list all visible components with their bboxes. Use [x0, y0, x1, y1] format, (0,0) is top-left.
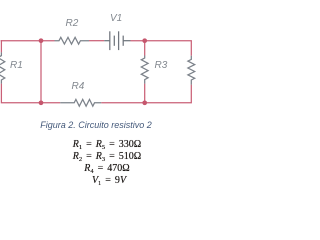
- battery V1 plate short 1: [113, 36, 115, 46]
- label R2: [66, 18, 79, 29]
- resistor R5: [188, 56, 195, 85]
- battery V1 stub left: [104, 40, 110, 42]
- label R3: [155, 60, 168, 71]
- junction node bottom-right: [142, 100, 147, 105]
- wire top-right from V1 to corner and down: [131, 41, 192, 56]
- wire bottom-right from R4 to right corner up: [101, 85, 191, 103]
- wire R3 branch lower stub: [144, 84, 146, 103]
- resistor R4: [60, 99, 101, 106]
- battery V1 stub right: [123, 40, 130, 42]
- wire R3 branch upper stub: [144, 41, 146, 56]
- value label R1=R5=330: [7, 139, 207, 150]
- wire top-middle between R2 and V1: [89, 40, 104, 42]
- junction node top-left: [39, 38, 44, 43]
- junction node bottom-left: [39, 100, 44, 105]
- label R1: [10, 60, 23, 71]
- value label V1=9V: [9, 175, 209, 186]
- caption Figura 2: [0, 120, 196, 130]
- junction node top-right: [142, 38, 147, 43]
- label V1: [110, 13, 122, 24]
- wire left upper (corner above R1): [0, 40, 2, 52]
- resistor R1: [0, 52, 5, 83]
- resistor R3: [141, 56, 148, 84]
- label R4: [72, 81, 85, 92]
- value label R4=470: [7, 163, 207, 174]
- battery V1 plate long 2: [118, 31, 120, 50]
- battery V1 plate long 1: [109, 31, 111, 50]
- resistor R2: [55, 37, 90, 44]
- value label R2=R3=510: [7, 151, 207, 162]
- battery V1 plate short 2: [122, 36, 124, 46]
- wire middle vertical branch: [40, 41, 42, 103]
- wire top-left horizontal: [1, 40, 55, 42]
- wire left lower below R1 to bottom-left corner: [1, 84, 60, 103]
